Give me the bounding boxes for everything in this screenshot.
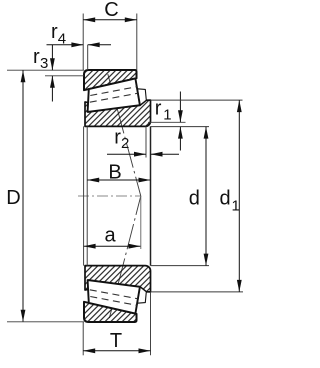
D bottom datum [7,321,84,323]
r3 datum lines [7,69,84,71]
dimension d1 [238,100,240,292]
svg-text:D: D [6,187,20,209]
dimension r2 [107,153,146,155]
dimension r3 [51,45,53,70]
dimension r1 [179,92,181,123]
dimension r4 [47,44,84,46]
extension line C right [136,14,138,71]
svg-text:2: 2 [121,135,129,152]
svg-text:1: 1 [232,197,240,214]
svg-text:3: 3 [40,55,48,72]
middle extension verticals (bore gap) [83,126,85,265]
roller top dashed generator lines [90,87,137,96]
svg-text:r: r [155,98,162,120]
svg-text:a: a [104,225,116,247]
inner ring cone bottom [85,266,151,292]
svg-text:1: 1 [163,107,171,124]
svg-text:d: d [189,188,200,210]
svg-text:r: r [33,46,40,68]
outer ring cup bottom [84,302,137,322]
outer ring cup top [84,70,137,90]
svg-text:d: d [220,188,231,210]
r2 datum line [145,126,147,157]
pressure line top [108,74,141,196]
dimension B [87,179,150,181]
cone rib top [137,89,146,105]
roller top [88,78,140,111]
inner ring cone top [85,100,151,126]
extension line C left / r4 datum [82,14,84,71]
svg-text:T: T [110,330,122,352]
r4 datum line right [87,45,89,70]
svg-text:C: C [104,0,118,21]
d1 extension lines [151,99,243,101]
dimension D [22,70,24,322]
dimension a [84,245,141,247]
a tick [140,196,142,249]
dimension T [83,350,150,352]
d extension lines [151,126,210,128]
centerline [78,195,141,197]
roller bottom [88,280,140,313]
T extension lines [82,322,84,355]
cone rib bottom [137,287,146,303]
pressure line bottom [109,196,140,318]
dimension C [83,19,137,21]
dimension d [205,127,207,266]
svg-text:B: B [108,162,121,184]
roller bottom dashed generator lines [90,297,137,306]
svg-text:4: 4 [58,31,66,48]
r1 datum line [148,121,186,123]
